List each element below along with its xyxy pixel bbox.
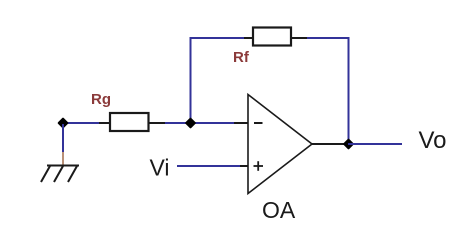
wire: op-amp output lead [312,143,348,145]
node: summing junction [187,119,195,127]
wire: Rg to summing junction [165,122,234,124]
wire: node to ground (navy upper part) [62,124,64,153]
node: input node [59,119,67,127]
svg-text:Vo: Vo [419,127,447,154]
wire: Vi to non-inverting input [177,165,241,167]
wire: Rf left lead [244,37,253,39]
svg-text:Rg: Rg [91,91,111,108]
wire: Rg left lead [99,122,111,124]
wire: op-amp inverting input lead [234,122,248,124]
ground [41,166,79,183]
wire: feedback loop left vertical and top run to Rf [191,38,246,123]
wire: Rf right lead [292,37,308,39]
node: output junction [345,140,353,148]
op-amp OA [248,95,312,194]
wire: input node to Rg [63,122,100,124]
wire: Rg right lead [149,122,166,124]
wire: top run to output vertical drop [307,38,349,144]
resistor Rf [253,28,291,46]
svg-text:OA: OA [262,197,296,223]
wire: node to ground (tan lower part) [62,152,64,165]
svg-text:Vi: Vi [150,154,170,180]
wire: op-amp non-inverting input lead [240,165,248,167]
svg-text:Rf: Rf [233,49,250,66]
resistor Rg [110,113,149,131]
wire: output to Vo [348,143,402,145]
